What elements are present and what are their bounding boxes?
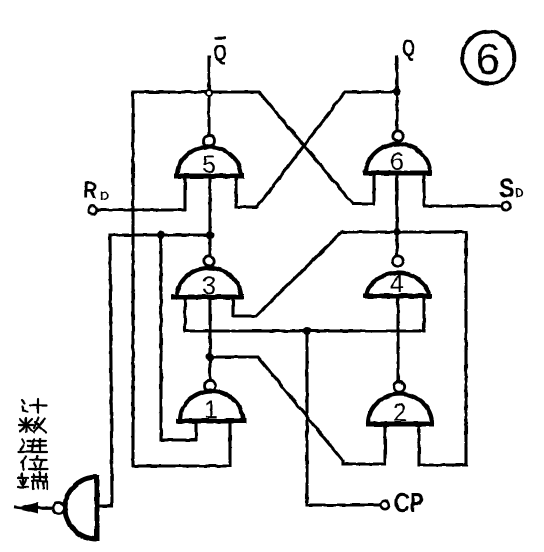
svg-text:4: 4 [390,270,404,298]
svg-text:D: D [515,186,524,200]
svg-text:3: 3 [202,272,216,300]
svg-text:2: 2 [393,399,407,427]
svg-text:Q: Q [402,35,415,62]
svg-text:1: 1 [204,396,218,424]
svg-text:S: S [499,173,515,203]
svg-text:D: D [100,189,109,203]
svg-text:6: 6 [476,35,500,84]
svg-text:CP: CP [394,487,424,518]
svg-text:5: 5 [202,151,216,179]
svg-text:Q: Q [213,40,227,65]
svg-text:6: 6 [390,148,404,176]
svg-text:R: R [83,177,97,204]
